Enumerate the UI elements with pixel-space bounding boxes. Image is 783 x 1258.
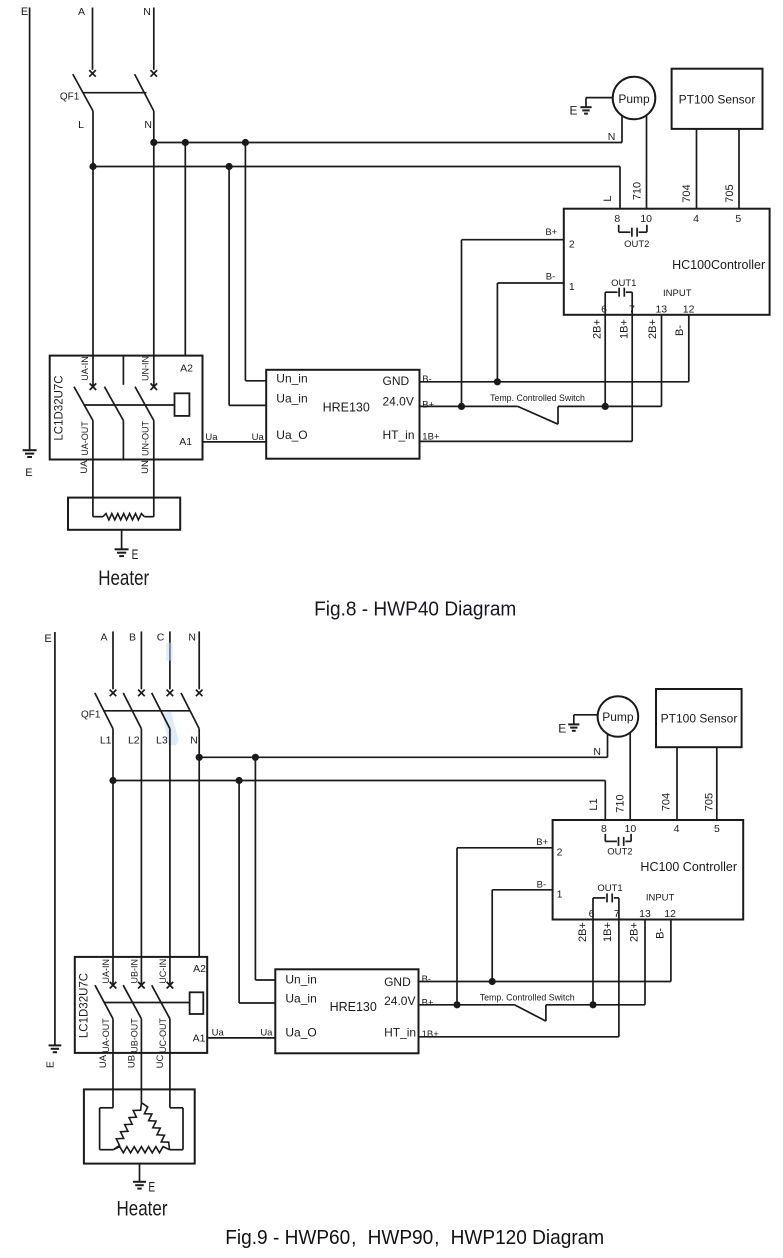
wire UC-OUT vertical to heater (d2): [169, 1019, 171, 1108]
module HRE130 pin Un_in label (d2): [285, 972, 316, 986]
wire L2 vertical to contactor (d2): [140, 729, 142, 985]
relay OUT1 label: [611, 278, 636, 289]
wire L1 vertical to contactor (d2): [112, 729, 114, 985]
node N label at pump (d2): [593, 746, 601, 758]
svg-text:5: 5: [735, 213, 741, 225]
heater R1 resistor element: [103, 514, 144, 520]
svg-text:24.0V: 24.0V: [384, 994, 415, 1008]
heater R1 box: [68, 498, 180, 530]
net 1B+ rotated label (pin 7) (d2): [602, 922, 614, 942]
relay OUT1 label (d2): [597, 883, 622, 894]
junction B+ net / pin 6 wire: [602, 403, 609, 410]
module HRE130 pin GND label: [383, 374, 410, 388]
heater R2 delta right element: [142, 1103, 170, 1150]
svg-text:2B+: 2B+: [592, 319, 604, 339]
junction line bus / Ua_in wire: [226, 163, 233, 170]
net B- label at GND pin: [422, 374, 432, 385]
module HRE130 pin HT_in label (d2): [384, 1026, 416, 1040]
contactor pole UA contact mark (d2): [110, 982, 117, 989]
pin 5 number (d2): [714, 823, 720, 835]
node UA rotated label: [79, 460, 90, 474]
breaker QF1 linkage bar: [83, 92, 147, 94]
wire pin 2 stub (d2): [457, 847, 553, 849]
contactor KM2 box: [75, 957, 207, 1053]
wire L3 vertical to contactor (d2): [169, 729, 171, 985]
pin 6 number: [601, 304, 607, 316]
module HRE130 name label (d2): [330, 1000, 377, 1014]
breaker QF1 pole N blade: [135, 74, 154, 111]
svg-text:Ua_in: Ua_in: [285, 992, 316, 1006]
wire B+ net right segment (d2): [546, 1004, 645, 1006]
contactor middle pole blade: [104, 387, 123, 421]
controller U1 name label: [672, 258, 765, 272]
net 1B+ rotated label (pin 7): [619, 319, 631, 339]
wire pin 2 vertical to B+ net: [461, 240, 463, 407]
svg-text:B+: B+: [422, 399, 434, 410]
wire B+ net left segment: [420, 405, 518, 407]
svg-text:24.0V: 24.0V: [383, 394, 414, 408]
net B+ label at 24.0V pin (d2): [422, 997, 434, 1008]
svg-text:Temp. Controlled Switch: Temp. Controlled Switch: [490, 393, 585, 403]
svg-text:Ua: Ua: [260, 1027, 273, 1038]
breaker QF1 label: [60, 92, 80, 103]
relay contact OUT2: [619, 225, 647, 237]
svg-text:A2: A2: [193, 963, 206, 975]
breaker QF1 label (d2): [81, 710, 101, 721]
svg-text:Ua: Ua: [212, 1027, 225, 1038]
contactor pole UA blade: [74, 387, 93, 421]
pin 7 number (d2): [614, 908, 620, 920]
wire pin 6 to B+ net (d2): [592, 920, 594, 1005]
net 2B+ rotated label (pin 13) (d2): [629, 922, 641, 942]
svg-text:UA: UA: [79, 460, 90, 474]
svg-text:QF1: QF1: [81, 710, 101, 721]
wire phase A drop (d2): [112, 631, 114, 689]
wire 1B+ net horizontal: [420, 440, 633, 442]
node UN rotated label: [140, 460, 151, 474]
svg-text:B-: B-: [546, 272, 556, 283]
svg-text:E: E: [21, 6, 28, 18]
svg-text:UN-OUT: UN-OUT: [141, 421, 151, 456]
svg-text:HRE130: HRE130: [323, 400, 370, 414]
wire N vertical to coil A2 (d2): [198, 729, 200, 957]
svg-text:10: 10: [625, 823, 637, 835]
wire neutral N drop (d2): [198, 631, 200, 689]
contactor pole UB blade (d2): [123, 985, 141, 1019]
contactor pole UC-OUT rotated label (d2): [158, 1018, 168, 1053]
svg-text:Ua: Ua: [252, 432, 265, 443]
wire pin8 drop from line bus: [619, 167, 621, 210]
junction neutral bus / Un_in wire: [242, 139, 249, 146]
switch S1 temp controlled blade: [518, 406, 558, 424]
contactor pole UA-OUT rotated label (d2): [101, 1018, 111, 1053]
node UA rotated label (d2): [98, 1054, 109, 1068]
sensor PT100 box: [672, 69, 763, 129]
module HRE130 pin 24.0V label: [383, 394, 414, 408]
ground heater label E (diagram 1): [132, 547, 139, 563]
module HRE130 box (d2): [275, 969, 418, 1053]
breaker QF1 pole C blade (d2): [152, 693, 170, 729]
svg-text:L3: L3: [156, 735, 168, 747]
switch S2 right stub: [545, 1005, 547, 1021]
svg-text:4: 4: [693, 213, 699, 225]
ground pump earth (d2): [568, 715, 579, 731]
switch S2 label: [480, 992, 575, 1002]
wire pin 12 to B- net (d2): [670, 920, 672, 982]
wire N vertical to contactor: [153, 111, 155, 387]
pin 10 number (d2): [625, 823, 637, 835]
node N label (d2): [188, 632, 196, 644]
pin 2 number: [569, 238, 575, 250]
breaker QF1 pole A contact mark: [89, 70, 96, 77]
wire L vertical to contactor: [92, 111, 94, 387]
wire UA-OUT vertical to heater (d2): [112, 1019, 114, 1108]
node UC rotated label (d2): [155, 1055, 166, 1069]
wire Ua_in feed (d2): [239, 781, 275, 1004]
svg-text:12: 12: [683, 304, 695, 316]
module HRE130 pin GND label (d2): [384, 975, 411, 989]
breaker QF1 pole N contact mark: [151, 70, 158, 77]
highlight artifact on L3 blade: [163, 712, 179, 746]
contactor KM1 part number label: [53, 375, 65, 440]
net 704 rotated label: [681, 184, 693, 202]
wire pump neutral drop: [621, 116, 623, 142]
junction line bus / Ua_in wire (d2): [236, 777, 243, 784]
wire neutral bus: [154, 142, 622, 144]
junction L / bus2: [89, 163, 96, 170]
svg-text:Ua_O: Ua_O: [285, 1026, 316, 1040]
svg-text:1B+: 1B+: [422, 432, 440, 443]
ground E rail (diagram 1): [23, 450, 37, 457]
module HRE130 pin HT_in label: [383, 428, 415, 442]
wire pin 7 to 1B+ net (d2): [618, 920, 620, 1037]
svg-text:6: 6: [589, 908, 595, 920]
net B+ label at pin 2: [545, 227, 557, 238]
node N label: [143, 6, 151, 18]
pin 2 number (d2): [557, 846, 563, 858]
svg-text:Heater: Heater: [116, 1198, 168, 1221]
contactor pole UA-IN rotated label (d2): [101, 959, 111, 984]
svg-text:E: E: [558, 722, 566, 736]
breaker QF1 pole C contact mark (d2): [167, 690, 174, 697]
net Ua label left: [205, 432, 218, 443]
svg-text:1: 1: [569, 281, 575, 293]
pin 5 number: [735, 213, 741, 225]
pin 8 number: [614, 213, 620, 225]
wire A1 to Ua_O: [203, 441, 267, 443]
contactor middle pole stub: [122, 356, 124, 385]
wire Un_in feed (d2): [255, 757, 275, 980]
net Ua label left (d2): [212, 1027, 225, 1038]
svg-text:QF1: QF1: [60, 92, 80, 103]
junction B- net / pin 1 wire (d2): [489, 978, 496, 985]
svg-text:2: 2: [569, 238, 575, 250]
wire neutral bus (d2): [199, 756, 607, 758]
node C label (d2): [157, 632, 165, 644]
svg-text:E: E: [44, 633, 51, 645]
svg-text:Pump: Pump: [602, 710, 634, 724]
svg-text:B-: B-: [537, 879, 547, 890]
svg-text:10: 10: [640, 213, 652, 225]
pin 1 number: [569, 281, 575, 293]
junction B+ net / pin 2 wire: [458, 403, 465, 410]
pump M2 circle: [598, 696, 639, 737]
svg-text:705: 705: [703, 793, 715, 811]
breaker QF1 pole A blade (d2): [95, 693, 113, 729]
wire PT100 to pin 5 (net 705) (d2): [716, 747, 718, 820]
node L1 label (d2): [100, 735, 112, 747]
caption Fig.9: [225, 1226, 604, 1249]
caption Fig.8: [314, 598, 516, 621]
svg-text:UB-OUT: UB-OUT: [130, 1018, 140, 1053]
svg-text:GND: GND: [384, 975, 411, 989]
contactor pole UA-OUT rotated label: [80, 421, 90, 456]
net 710 rotated label (d2): [615, 794, 627, 812]
pin 10 number: [640, 213, 652, 225]
contactor linkage bar: [84, 404, 175, 406]
ground pump earth label E (d2): [558, 722, 566, 736]
svg-text:710: 710: [631, 182, 643, 200]
net L1 rotated label at pin 8 (d2): [588, 798, 600, 810]
contactor terminal A2 label: [180, 363, 193, 375]
svg-text:HC100Controller: HC100Controller: [672, 258, 765, 272]
svg-text:N: N: [143, 6, 151, 18]
wire pin 1 stub: [497, 282, 563, 284]
svg-text:A: A: [78, 6, 85, 18]
svg-text:4: 4: [674, 823, 680, 835]
net 710 rotated label: [631, 182, 643, 200]
wire pin 7 to 1B+ net: [631, 315, 633, 442]
controller U1 HC100 box: [564, 209, 770, 315]
svg-text:UA: UA: [98, 1054, 109, 1068]
breaker QF1 linkage bar (d2): [103, 710, 191, 712]
node E label (diagram 1): [21, 6, 28, 18]
contactor pole UC-IN rotated label (d2): [158, 959, 168, 984]
svg-text:A1: A1: [193, 1033, 206, 1045]
net B- label at pin 1 (d2): [537, 879, 547, 890]
module HRE130 box: [266, 370, 419, 459]
svg-text:1B+: 1B+: [602, 922, 614, 942]
ground E rail rotated label (diagram 2): [44, 1061, 56, 1068]
svg-text:B-: B-: [422, 374, 432, 385]
pin 8 number (d2): [601, 823, 607, 835]
svg-text:B-: B-: [674, 325, 686, 336]
svg-text:13: 13: [655, 304, 667, 316]
svg-text:B+: B+: [422, 997, 434, 1008]
contactor coil (d2): [190, 992, 204, 1014]
node L label: [78, 119, 84, 131]
wire pin8 drop from line bus (d2): [604, 781, 606, 821]
contactor pole UA blade (d2): [95, 985, 113, 1019]
contactor linkage bar (d2): [105, 1002, 190, 1004]
contactor pole UC contact mark (d2): [167, 982, 174, 989]
contactor terminal A1 label: [179, 436, 192, 448]
svg-text:UA-IN: UA-IN: [101, 959, 111, 984]
ground E rail label (diagram 1): [25, 467, 32, 479]
svg-text:2B+: 2B+: [629, 922, 641, 942]
wire pin 6 to B+ net: [604, 315, 606, 407]
junction N / bus1: [150, 139, 157, 146]
wire UA inner link (d2): [100, 1108, 114, 1150]
wire pin 12 to B- net: [688, 315, 690, 382]
node N label at pump: [608, 131, 616, 143]
relay contact OUT1: [605, 288, 632, 315]
junction N / neutral bus (d2): [196, 754, 203, 761]
svg-text:E: E: [25, 467, 32, 479]
svg-text:1B+: 1B+: [422, 1029, 440, 1040]
wire E rail vertical (diagram 1): [29, 8, 31, 450]
svg-text:A1: A1: [179, 436, 192, 448]
svg-text:B-: B-: [654, 928, 666, 939]
svg-text:PT100 Sensor: PT100 Sensor: [661, 711, 738, 725]
net 705 rotated label: [724, 184, 736, 202]
svg-text:2B+: 2B+: [647, 319, 659, 339]
heater R1 element wire right: [144, 516, 154, 518]
pump M1 label: [618, 92, 650, 106]
svg-text:12: 12: [664, 908, 676, 920]
junction B+ net / pin 2 wire (d2): [453, 1001, 460, 1008]
wire UA-OUT vertical to heater: [92, 421, 94, 517]
svg-text:N: N: [188, 632, 196, 644]
contactor pole UN-OUT rotated label: [141, 421, 151, 456]
contactor pole UA-IN rotated label: [80, 356, 90, 381]
svg-text:704: 704: [681, 184, 693, 202]
breaker QF1 pole A blade: [73, 74, 93, 111]
svg-text:UB: UB: [127, 1055, 138, 1068]
svg-text:L2: L2: [128, 735, 140, 747]
svg-text:C: C: [157, 632, 165, 644]
pin 7 number: [629, 304, 635, 316]
wire Ua_in feed: [229, 167, 266, 406]
svg-text:UC-OUT: UC-OUT: [158, 1018, 168, 1053]
svg-text:8: 8: [614, 213, 620, 225]
svg-text:8: 8: [601, 823, 607, 835]
sensor PT100 label: [679, 92, 756, 106]
breaker QF1 pole B contact mark (d2): [138, 690, 145, 697]
pump M2 label: [602, 710, 634, 724]
heater caption (d2): [116, 1198, 168, 1221]
controller U2 name label: [640, 860, 737, 874]
node L2 label (d2): [128, 735, 140, 747]
svg-text:N: N: [608, 131, 616, 143]
junction B+ net / pin 6 wire (d2): [589, 1001, 596, 1008]
net B- label at pin 1: [546, 272, 556, 283]
relay OUT2 label (d2): [607, 846, 632, 857]
svg-text:UA-OUT: UA-OUT: [80, 421, 90, 456]
contactor coil: [175, 393, 190, 416]
svg-text:Temp. Controlled Switch: Temp. Controlled Switch: [480, 992, 575, 1002]
svg-text:1B+: 1B+: [619, 319, 631, 339]
contactor KM1 box: [50, 356, 203, 460]
svg-text:E: E: [148, 1179, 155, 1195]
wire B+ net right segment: [558, 405, 662, 407]
ground heater label E (d2): [148, 1179, 155, 1195]
heater R1 element wire left: [93, 516, 103, 518]
ground heater (d2): [133, 1164, 146, 1189]
net B- rotated label (pin 12): [674, 325, 686, 336]
module HRE130 pin Ua_O label (d2): [285, 1026, 316, 1040]
net 2B+ rotated label (pin 13): [647, 319, 659, 339]
svg-text:UN-IN: UN-IN: [141, 356, 151, 381]
module HRE130 name label: [323, 400, 370, 414]
svg-text:1: 1: [557, 888, 563, 900]
svg-text:2B+: 2B+: [577, 922, 589, 942]
net B- rotated label (pin 12) (d2): [654, 928, 666, 939]
heater R2 delta bottom element: [113, 1147, 169, 1153]
svg-text:HC100 Controller: HC100 Controller: [640, 860, 737, 874]
wire pin 1 vertical to B- net: [496, 283, 498, 382]
net 704 rotated label (d2): [660, 793, 672, 811]
svg-text:E: E: [44, 1061, 56, 1068]
breaker QF1 pole N contact mark (d2): [196, 690, 203, 697]
svg-text:LC1D32U7C: LC1D32U7C: [79, 973, 91, 1038]
wire UC inner link (d2): [170, 1108, 184, 1150]
svg-text:B: B: [129, 632, 136, 644]
controller INPUT label (d2): [646, 892, 675, 903]
svg-text:L1: L1: [100, 735, 112, 747]
svg-text:Fig.8 - HWP40 Diagram: Fig.8 - HWP40 Diagram: [314, 598, 516, 621]
svg-text:HRE130: HRE130: [330, 1000, 377, 1014]
switch S1 label: [490, 393, 585, 403]
pin 12 number (d2): [664, 908, 676, 920]
svg-text:E: E: [132, 547, 139, 563]
svg-text:UA-OUT: UA-OUT: [101, 1018, 111, 1053]
svg-text:LC1D32U7C: LC1D32U7C: [53, 375, 65, 440]
contactor pole UA contact mark: [90, 383, 97, 390]
svg-text:Ua: Ua: [205, 432, 218, 443]
wire pin 2 stub: [462, 239, 564, 241]
net B+ label at pin 2 (d2): [536, 837, 548, 848]
svg-text:Un_in: Un_in: [285, 972, 316, 986]
contactor terminal A2 label (d2): [193, 963, 206, 975]
contactor KM2 part number label: [79, 973, 91, 1038]
controller U2 HC100 box: [553, 820, 744, 920]
svg-text:UN: UN: [140, 460, 151, 474]
pump M1 circle: [613, 77, 656, 120]
svg-text:PT100 Sensor: PT100 Sensor: [679, 92, 756, 106]
junction neutral bus / A2 wire: [182, 139, 189, 146]
net 705 rotated label (d2): [703, 793, 715, 811]
switch S1 right stub: [557, 406, 559, 424]
controller INPUT label: [663, 288, 692, 299]
svg-text:OUT2: OUT2: [607, 846, 632, 857]
relay contact OUT1 (d2): [593, 893, 619, 919]
sensor PT100 box (d2): [656, 689, 742, 747]
junction neutral bus / Un_in wire (d2): [252, 754, 259, 761]
node A label (d2): [100, 632, 107, 644]
contactor pole UN contact mark: [151, 383, 158, 390]
breaker QF1 pole N blade (d2): [181, 693, 199, 729]
wire PT100 to pin 4 (net 704) (d2): [676, 747, 678, 820]
heater R2 box: [84, 1089, 195, 1163]
pin 6 number (d2): [589, 908, 595, 920]
wire pump neutral drop (d2): [607, 734, 609, 758]
svg-text:705: 705: [724, 184, 736, 202]
svg-text:UB-IN: UB-IN: [130, 959, 140, 984]
node L3 label (d2): [156, 735, 168, 747]
svg-text:Pump: Pump: [618, 92, 650, 106]
svg-text:OUT1: OUT1: [611, 278, 636, 289]
wire pump to pin 10 (net 710) (d2): [629, 733, 631, 821]
pin 1 number (d2): [557, 888, 563, 900]
svg-text:INPUT: INPUT: [663, 288, 692, 299]
net Ua label right: [252, 432, 265, 443]
svg-text:Un_in: Un_in: [276, 371, 307, 385]
svg-text:UC: UC: [155, 1055, 166, 1069]
ground pump earth label E: [569, 104, 577, 118]
node A label: [78, 6, 85, 18]
svg-text:HT_in: HT_in: [384, 1026, 416, 1040]
